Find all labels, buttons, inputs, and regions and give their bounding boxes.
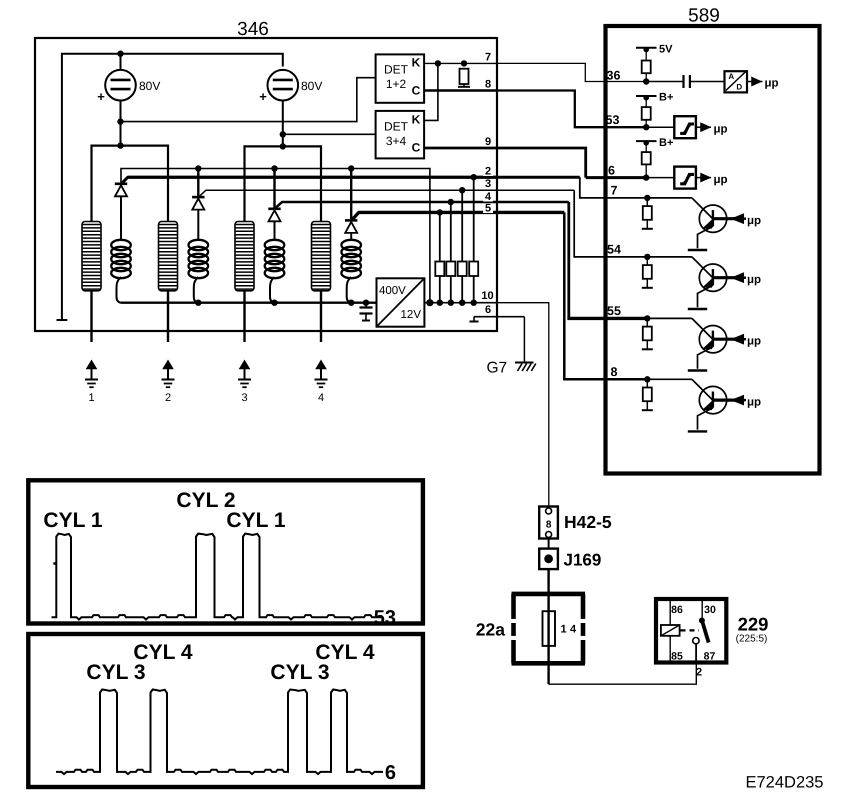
label A in AD box [728, 72, 734, 81]
wire H42-5 to J169 [548, 539, 550, 549]
wire emitter Q1 [698, 226, 713, 248]
label E724D235 [746, 774, 824, 792]
wire bleed column 4 lower [473, 276, 475, 303]
transistor Q2 [699, 264, 726, 291]
label pin 7 346 [485, 52, 491, 64]
label H42-5 [564, 512, 612, 532]
label pin 2 346 [483, 166, 493, 178]
oscillogram box cyl 1-2 [28, 480, 423, 623]
diode D4 [345, 220, 357, 233]
wire end tick left [57, 319, 68, 321]
svg-text:3: 3 [485, 178, 491, 190]
arrow microprocessor to base Q1 [733, 214, 747, 223]
svg-text:12V: 12V [401, 309, 422, 321]
wire rail right segment pin10 [424, 302, 496, 304]
wire pin5 to pin8 [564, 212, 647, 379]
node pin6 [643, 174, 649, 180]
svg-text:400V: 400V [379, 285, 406, 297]
arrow microprocessor to base Q3 [733, 335, 747, 344]
wire source2 bottom lead [282, 101, 284, 147]
label 86 relay [671, 604, 683, 616]
node bleed column 4 rail [471, 300, 477, 306]
label CYL 4 left [133, 641, 192, 664]
svg-text:4: 4 [318, 392, 324, 404]
label + source1 [97, 89, 105, 104]
svg-text:μp: μp [747, 396, 761, 408]
transistor Q4 [699, 386, 726, 413]
terminal tick pulldown 54 [642, 287, 653, 289]
svg-text:μp: μp [714, 124, 728, 136]
relay switch blade [699, 618, 709, 643]
svg-text:229: 229 [738, 614, 769, 635]
wire bleed column 3 upper [461, 190, 463, 261]
wire source1 bottom lead [120, 101, 122, 146]
wire pin36 to cap [646, 81, 683, 83]
svg-text:2: 2 [696, 667, 702, 679]
wire pin7 to transistor [647, 198, 713, 219]
resistor pullup 36 [642, 61, 651, 74]
ignition coil primary winding 4 [312, 222, 331, 291]
wire pin2 to pin7 [580, 177, 648, 198]
arrow trigger to microprocessor 53 [696, 123, 711, 131]
label microprocessor 53 [714, 124, 728, 136]
wire pulldown bottom 7 [646, 220, 648, 229]
svg-text:+: + [259, 89, 267, 104]
svg-text:6: 6 [608, 163, 615, 177]
wire secondary 3 top lead [274, 221, 276, 241]
node bleed column 2 rail [448, 300, 454, 306]
voltage source 80V no.2 [268, 70, 299, 101]
label pin 36 589 [607, 68, 621, 82]
resistor bleed 4 [469, 262, 478, 277]
label pin 5 346 [483, 203, 493, 215]
converter 400V/12V box [377, 278, 425, 326]
label CYL 1 right [226, 509, 285, 532]
svg-text:K: K [412, 113, 421, 127]
svg-text:85: 85 [671, 651, 683, 663]
node source2 rail [280, 143, 286, 149]
wire secondary 4 top lead [350, 233, 352, 241]
label pin 55 589 [607, 304, 621, 318]
wire relay pin87 lead [695, 644, 697, 662]
svg-text:80V: 80V [139, 79, 160, 93]
svg-text:C: C [412, 141, 421, 155]
label D in AD box [736, 82, 742, 91]
wire through fuse 22a [547, 610, 549, 646]
svg-text:3: 3 [241, 392, 247, 404]
ground transistor Q2 [688, 308, 707, 310]
connector H42-5 pin circles [546, 508, 552, 538]
node sense bus d3 [271, 165, 277, 171]
svg-text:22a: 22a [476, 620, 505, 640]
svg-text:μp: μp [714, 174, 728, 186]
node pin36 [643, 78, 649, 84]
wire C det12 pin8 [424, 89, 496, 92]
node rail loop2 [195, 300, 201, 306]
svg-text:3+4: 3+4 [386, 134, 407, 148]
node bleed column 3 [459, 187, 465, 193]
node source1 mid [117, 118, 123, 124]
svg-text:2: 2 [165, 392, 171, 404]
supply B+ bar 6 [636, 137, 673, 149]
label 3+4 det34 [386, 134, 407, 148]
wire pulldown resistor lead 8 [646, 379, 648, 387]
svg-text:6: 6 [385, 762, 396, 784]
wire pin54 to transistor [647, 257, 713, 278]
svg-text:DET: DET [384, 63, 409, 77]
svg-text:7: 7 [485, 52, 491, 64]
wire trigger bus pin4 [276, 202, 569, 208]
wire B+ to resistor 53 [645, 98, 647, 107]
ignition coil primary winding 1 [82, 222, 101, 291]
wire primary common rail [121, 302, 377, 304]
wire primary 2 bottom lead [167, 291, 169, 342]
waveform cyl3-4 trace [56, 690, 383, 775]
svg-text:14: 14 [561, 624, 580, 636]
label 80V source1 [139, 79, 160, 93]
node bleed column 3 rail [459, 300, 465, 306]
label DET det34 [384, 120, 409, 134]
terminal tick pulldown 7 [642, 228, 653, 230]
wire pin8 to pin53 [496, 91, 646, 128]
node pin53 [643, 124, 649, 130]
wire base line Q3 [713, 338, 735, 341]
wire secondary 1 bottom lead [116, 277, 121, 303]
label 80V source2 [301, 79, 322, 93]
svg-text:1: 1 [88, 392, 94, 404]
svg-text:CYL 1: CYL 1 [226, 509, 285, 532]
wire pin53 to trigger box [646, 126, 675, 128]
wire resistor to node 53 [645, 120, 647, 127]
node K net a [435, 60, 441, 66]
wire pin9 to pin6 [496, 148, 646, 178]
node sense bus d4 [348, 165, 354, 171]
wire secondary 3 bottom lead [270, 277, 275, 303]
wire pulldown resistor lead 7 [646, 198, 648, 206]
arrow emitter Q3 [704, 342, 711, 349]
arrow emitter Q1 [704, 221, 711, 228]
svg-text:J169: J169 [564, 551, 602, 570]
node rail loop3 [271, 300, 277, 306]
wire primary 4 bottom lead [320, 291, 322, 342]
schmitt trigger box 6 [674, 167, 696, 189]
node pin7 [644, 195, 650, 201]
label pin 9 346 [485, 136, 491, 148]
svg-text:(225:5): (225:5) [736, 634, 768, 645]
label K det34 [412, 113, 421, 127]
label spark plug 4 [318, 392, 324, 404]
label pin 53 589 [606, 113, 620, 127]
arrow microprocessor to base Q2 [733, 273, 747, 282]
svg-text:589: 589 [688, 6, 720, 27]
supply B+ bar 53 [636, 92, 673, 104]
control module 589 label [688, 6, 720, 27]
relay dashed actuator link [681, 629, 700, 631]
resistor pulldown 7 [643, 206, 652, 220]
resistor K net [460, 69, 469, 84]
svg-text:K: K [412, 56, 421, 70]
wire resistor36 to node [645, 73, 647, 81]
diode D3 [268, 209, 280, 222]
node pin55 [644, 315, 650, 321]
svg-text:μp: μp [747, 274, 761, 286]
wire source2 to DET3+4 [283, 133, 376, 135]
wire pulldown bottom 54 [646, 279, 648, 288]
label pin 8 589 [611, 365, 618, 379]
arrow emitter Q2 [704, 280, 711, 287]
label pin 6 589 [608, 163, 615, 177]
arrow trigger to microprocessor 6 [696, 174, 711, 182]
node source1 top [117, 51, 123, 57]
wire bleed column 2 lower [450, 276, 452, 303]
label 87 relay [704, 651, 716, 663]
node bleed column 4 [471, 174, 477, 180]
wire pin6 to G7 [523, 317, 525, 363]
node K net b [461, 60, 467, 66]
wire bleed column 1 lower [439, 276, 441, 303]
resistor bleed 1 [435, 262, 444, 277]
svg-text:8: 8 [485, 79, 491, 91]
wire pin6 to trigger box [646, 177, 675, 179]
wire rail bank34 [245, 146, 322, 221]
supply 5V bar [636, 44, 673, 56]
label microprocessor 36 [765, 78, 779, 90]
label spark plug 2 [165, 392, 171, 404]
label pin 4 346 [483, 191, 493, 203]
ignition coil primary winding 3 [235, 222, 254, 291]
svg-text:1+2: 1+2 [386, 77, 407, 91]
label 85 relay [671, 651, 683, 663]
svg-text:μp: μp [747, 215, 761, 227]
svg-text:G7: G7 [486, 360, 507, 377]
svg-text:54: 54 [607, 242, 621, 256]
label C det12 [412, 84, 421, 98]
node sense bus d2 [195, 165, 201, 171]
label microprocessor 54 [747, 274, 761, 286]
terminal tick pulldown 8 [642, 409, 653, 411]
svg-text:87: 87 [704, 651, 716, 663]
label 22a [476, 620, 505, 640]
capacitor smoothing [360, 300, 373, 321]
node bleed column 2 [448, 199, 454, 205]
detector module DET 1+2 box [376, 54, 425, 102]
relay 229 box [656, 599, 726, 663]
label CYL 3 left [86, 661, 145, 684]
label pin 8 346 [485, 79, 491, 91]
wire K det34 link [424, 63, 438, 120]
wire source1 top lead [120, 54, 122, 70]
label pin 7 589 [611, 183, 618, 197]
wire pin7 to pin36 [496, 63, 645, 81]
control module 589 box outline [606, 26, 820, 474]
label 53 oscillogram [374, 607, 396, 629]
ignition coil primary winding 2 [159, 222, 178, 291]
ignition coil secondary winding 1 [111, 240, 131, 278]
svg-text:55: 55 [607, 304, 621, 318]
svg-text:B+: B+ [659, 137, 673, 149]
node sense bus bottom rail [426, 299, 433, 306]
ignition cartridge 346 label [237, 19, 269, 40]
waveform cyl1-2 trace [52, 534, 382, 620]
wire B+ to resistor 6 [645, 143, 647, 152]
label pin 54 589 [607, 242, 621, 256]
label pin 3 346 [483, 178, 493, 190]
schmitt trigger box 53 [674, 116, 696, 138]
svg-text:5V: 5V [659, 44, 673, 56]
wire secondary 2 bottom lead [194, 277, 199, 303]
svg-text:80V: 80V [301, 79, 322, 93]
ground transistor Q4 [688, 430, 707, 432]
wire bleed column 1 upper [439, 212, 441, 261]
svg-text:CYL 3: CYL 3 [86, 661, 145, 684]
svg-text:8: 8 [611, 365, 618, 379]
diode D1 [115, 184, 127, 197]
node source2 det34 tap [280, 131, 286, 137]
label CYL 4 right [315, 641, 374, 664]
wire trigger bus pin3 [200, 190, 575, 196]
ignition cartridge 346 box outline [35, 38, 497, 331]
A/D converter box [725, 71, 748, 92]
resistor pulldown 55 [643, 327, 652, 341]
label 6 oscillogram [385, 762, 396, 784]
wire pulldown resistor lead 55 [646, 318, 648, 326]
resistor pullup 6 [642, 152, 651, 164]
label microprocessor 7 [747, 215, 761, 227]
wire diode4 cathode lead [350, 169, 352, 221]
wire rail bank12 [92, 146, 169, 222]
node pin54 [644, 254, 650, 260]
wire pulldown bottom 8 [646, 401, 648, 410]
label 30 relay [704, 604, 716, 616]
terminal case tick pin6 [470, 317, 479, 322]
spark plug 3 [238, 361, 251, 387]
wire emitter Q3 [698, 347, 713, 369]
svg-text:36: 36 [607, 68, 621, 82]
wire pin55 to transistor [647, 318, 713, 339]
arrow microprocessor to base Q4 [733, 396, 747, 405]
transistor Q1 [699, 205, 726, 232]
transistor Q3 [699, 326, 726, 353]
label C det34 [412, 141, 421, 155]
wire diode3 cathode lead [273, 169, 275, 209]
wire K net pin7 [424, 62, 496, 64]
fuse element 22a [543, 611, 556, 646]
label CYL 2 [176, 489, 235, 512]
label microprocessor 8 [747, 396, 761, 408]
svg-text:+: + [97, 89, 105, 104]
wire pin4 to pin55 [567, 202, 647, 318]
label 2 relay wire [696, 667, 702, 679]
wire relay pin30 lead [701, 601, 703, 619]
svg-text:μp: μp [765, 78, 779, 90]
relay pin87 contact [693, 638, 699, 644]
label G7 [486, 360, 507, 377]
node source1 rail [117, 142, 123, 148]
label spark plug 1 [88, 392, 94, 404]
resistor pullup 53 [642, 107, 651, 120]
wire emitter Q2 [698, 285, 713, 307]
fuse holder 22a box [512, 594, 586, 663]
splice J169 box [539, 549, 558, 570]
wire base line Q4 [713, 399, 735, 402]
label CYL 3 right [270, 661, 329, 684]
ignition coil secondary winding 2 [189, 240, 209, 278]
diode D2 [192, 197, 204, 210]
svg-text:H42-5: H42-5 [564, 512, 612, 532]
ignition coil secondary winding 3 [265, 240, 285, 278]
label CYL 1 left [43, 509, 102, 532]
svg-text:53: 53 [606, 113, 620, 127]
wire base line Q2 [713, 276, 735, 279]
label pin 6 346 [483, 304, 493, 316]
wire secondary 4 bottom lead [347, 277, 352, 303]
label DET det12 [384, 63, 409, 77]
wire pulldown bottom 55 [646, 340, 648, 349]
resistor pulldown 8 [643, 388, 652, 402]
svg-text:5: 5 [485, 203, 491, 215]
wire bleed column 3 lower [461, 276, 463, 303]
wire primary 3 bottom lead [243, 291, 245, 342]
spark plug 1 [85, 361, 98, 387]
wire sense bus [121, 169, 430, 303]
voltage source 80V no.1 [105, 70, 136, 101]
svg-text:DET: DET [384, 120, 409, 134]
wire trigger bus pin5 [353, 212, 565, 219]
label microprocessor 6 [714, 174, 728, 186]
svg-text:7: 7 [611, 183, 618, 197]
svg-text:μp: μp [747, 336, 761, 348]
svg-text:6: 6 [485, 304, 491, 316]
label microprocessor 55 [747, 336, 761, 348]
wire diode2 cathode lead [197, 169, 199, 198]
label 12V converter [401, 309, 422, 321]
node pin8 [644, 376, 650, 382]
ground transistor Q1 [688, 249, 707, 251]
terminal tick resistor K [458, 86, 470, 88]
wire bleed column 2 upper [450, 202, 452, 262]
svg-text:8: 8 [546, 519, 552, 530]
wire secondary 2 top lead [197, 210, 199, 241]
svg-text:CYL 1: CYL 1 [43, 509, 102, 532]
ignition coil secondary winding 4 [341, 240, 361, 278]
label K det12 [412, 56, 421, 70]
wire relay coil bottom [669, 636, 671, 661]
svg-text:346: 346 [237, 19, 269, 40]
spark plug 2 [162, 361, 175, 387]
label 14 in 22a [561, 624, 580, 636]
wire relay coil top [669, 601, 671, 625]
relay coil box [661, 625, 680, 636]
svg-text:4: 4 [485, 191, 492, 203]
node bleed column 1 rail [437, 300, 443, 306]
capacitor AD input [684, 75, 690, 88]
svg-text:CYL 3: CYL 3 [270, 661, 329, 684]
svg-text:E724D235: E724D235 [746, 774, 824, 792]
label 1+2 det12 [386, 77, 407, 91]
terminal tick pulldown 55 [642, 348, 653, 350]
label 400V converter [379, 285, 406, 297]
resistor bleed 3 [458, 262, 467, 277]
arrow emitter Q4 [704, 403, 711, 410]
svg-text:D: D [736, 82, 742, 91]
svg-text:C: C [412, 84, 421, 98]
label spark plug 3 [241, 392, 247, 404]
wire resistor K bottom lead [463, 84, 465, 87]
wire emitter Q4 [698, 408, 713, 430]
wire source1 to DET1+2 [121, 78, 376, 122]
resistor pulldown 54 [643, 265, 652, 279]
svg-text:B+: B+ [659, 92, 673, 104]
